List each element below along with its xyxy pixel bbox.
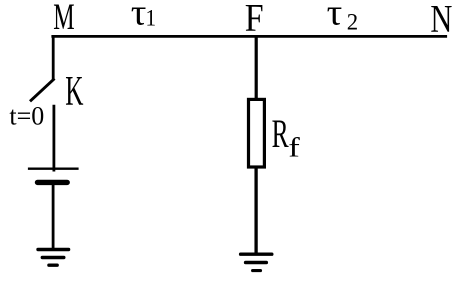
svg-text:τ: τ	[327, 0, 343, 33]
svg-text:τ: τ	[131, 0, 147, 33]
svg-text:t=0: t=0	[9, 102, 44, 131]
svg-text:K: K	[65, 69, 83, 115]
svg-text:1: 1	[146, 5, 157, 31]
svg-text:F: F	[245, 0, 264, 39]
svg-text:R: R	[272, 112, 289, 156]
svg-text:N: N	[430, 0, 452, 40]
svg-text:f: f	[288, 132, 300, 162]
svg-text:M: M	[53, 0, 74, 38]
svg-text:2: 2	[347, 9, 358, 35]
